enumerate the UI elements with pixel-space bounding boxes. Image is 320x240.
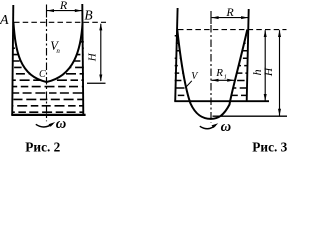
vessel left wall fig3 — [175, 8, 177, 101]
svg-text:R: R — [59, 0, 68, 12]
svg-text:B: B — [84, 7, 92, 22]
h dimension fig3 — [264, 30, 266, 101]
vessel bottom fig3 (extends right for h dimension) — [174, 100, 269, 102]
liquid hatching fig3 — [173, 36, 250, 96]
paraboloid surface fig3 — [177, 30, 247, 119]
axis of rotation fig2 (dash-dot) — [46, 19, 48, 121]
svg-text:Рис. 3: Рис. 3 — [252, 140, 287, 155]
vessel left wall fig2 — [12, 5, 13, 115]
svg-text:A: A — [0, 13, 9, 28]
svg-text:R: R — [225, 5, 234, 19]
H dimension fig2 — [100, 24, 102, 81]
axis of rotation fig3 (dash-dot) — [210, 25, 212, 123]
svg-text:H: H — [87, 52, 99, 62]
R dimension line fig3 — [212, 17, 248, 19]
axis tick top fig2 — [46, 5, 48, 18]
svg-text:H: H — [263, 67, 275, 77]
axis tick top fig3 — [210, 11, 212, 24]
rotation arrow fig3 — [200, 125, 216, 129]
vessel right wall fig3 — [247, 9, 249, 101]
vertex level reference line fig3 — [213, 115, 288, 117]
rotation arrow fig2 — [36, 124, 53, 127]
svg-text:ω: ω — [221, 119, 232, 135]
svg-text:h: h — [250, 69, 264, 75]
svg-text:R: R — [215, 67, 223, 79]
dashed level line fig3 — [178, 29, 287, 31]
vessel bottom fig2 — [11, 114, 85, 116]
dashed level line A-B fig2 — [14, 21, 106, 23]
V leader line fig3 — [186, 81, 192, 88]
R1 dimension line fig3 — [212, 79, 235, 81]
vertex level reference line fig2 — [87, 82, 106, 84]
paraboloid surface fig2 — [13, 22, 82, 82]
svg-text:C: C — [39, 69, 46, 80]
svg-text:ω: ω — [56, 116, 67, 132]
H dimension fig3 — [279, 30, 281, 116]
vessel right wall fig2 — [82, 4, 83, 115]
liquid hatching fig2 — [12, 35, 84, 112]
svg-text:n: n — [56, 47, 60, 55]
svg-text:Рис. 2: Рис. 2 — [25, 140, 60, 155]
R dimension line fig2 — [47, 10, 82, 12]
svg-text:1: 1 — [224, 73, 227, 80]
